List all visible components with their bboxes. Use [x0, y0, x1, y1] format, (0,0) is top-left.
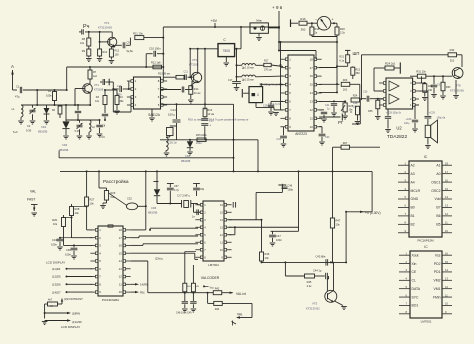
svg-text:ШП: ШП [353, 51, 360, 56]
svg-text:R27: R27 [343, 142, 348, 145]
svg-text:R35: R35 [368, 110, 373, 113]
svg-text:R13 39 ом: R13 39 ом [158, 73, 170, 76]
svg-text:VT5: VT5 [312, 302, 318, 306]
svg-text:C34: C34 [52, 238, 57, 242]
svg-text:(11)D4: (11)D4 [52, 267, 61, 271]
svg-text:CD1: CD1 [41, 125, 47, 129]
svg-text:13: 13 [119, 267, 123, 271]
svg-text:C23: C23 [277, 138, 282, 141]
svg-text:R16 зс имменой 10 4.7к для ука: R16 зс имменой 10 4.7к для указанной зап… [188, 118, 249, 122]
svg-text:R46: R46 [265, 252, 270, 256]
svg-text:B7: B7 [436, 206, 440, 210]
svg-text:5+3: 5+3 [13, 130, 18, 134]
svg-text:VT1: VT1 [94, 83, 99, 87]
svg-text:C11: C11 [184, 71, 189, 74]
svg-text:OSC1: OSC1 [431, 180, 440, 184]
svg-text:17: 17 [310, 66, 314, 70]
svg-text:R31 10к: R31 10к [416, 70, 426, 74]
svg-text:13: 13 [310, 100, 314, 104]
svg-text:C16: C16 [117, 85, 122, 88]
svg-text:15: 15 [310, 83, 314, 87]
svg-text:R10: R10 [103, 51, 108, 54]
svg-text:FMin: FMin [433, 295, 441, 299]
svg-text:VAL: VAL [237, 313, 243, 317]
svg-text:R32: R32 [450, 48, 455, 52]
svg-text:КВ109Б: КВ109Б [59, 148, 69, 152]
svg-text:LCD DISPLAY: LCD DISPLAY [46, 261, 65, 265]
svg-text:100д: 100д [99, 136, 105, 139]
svg-text:MCLR: MCLR [411, 189, 421, 193]
svg-text:A2: A2 [411, 163, 415, 167]
svg-text:КТ3130 Б6: КТ3130 Б6 [450, 89, 464, 93]
svg-text:+ 9 в: + 9 в [272, 5, 283, 10]
svg-text:РГ: РГ [338, 120, 344, 125]
svg-text:R16: R16 [208, 109, 213, 112]
svg-text:+5V: +5V [211, 19, 218, 23]
svg-text:360: 360 [301, 28, 306, 32]
svg-text:Др1 16 мкг: Др1 16 мкг [242, 67, 254, 70]
svg-text:18: 18 [310, 57, 314, 61]
svg-text:R34: R34 [428, 85, 433, 88]
svg-text:15: 15 [119, 251, 123, 255]
svg-text:R5(: R5( [140, 291, 145, 295]
svg-text:Xin: Xin [412, 262, 417, 266]
svg-text:C17: C17 [228, 79, 233, 82]
svg-text:510: 510 [450, 59, 455, 63]
svg-text:B5: B5 [436, 223, 440, 227]
svg-text:R24 2к2: R24 2к2 [385, 62, 396, 66]
svg-text:16: 16 [119, 244, 123, 248]
svg-text:SYC: SYC [412, 295, 420, 299]
svg-text:LM7001: LM7001 [421, 320, 432, 324]
svg-text:R29: R29 [52, 218, 57, 222]
svg-text:12: 12 [119, 275, 123, 279]
svg-text:B1: B1 [411, 214, 415, 218]
svg-text:C44 1μ: C44 1μ [313, 269, 322, 273]
svg-text:10: 10 [310, 125, 314, 129]
svg-text:C43 68н: C43 68н [316, 255, 326, 259]
svg-text:R12: R12 [115, 50, 120, 53]
svg-text:18: 18 [119, 228, 123, 232]
svg-text:17: 17 [119, 236, 123, 240]
svg-text:100p: 100p [288, 189, 294, 192]
svg-text:C20 4.7μ 6в: C20 4.7μ 6в [268, 103, 282, 106]
svg-text:R18: R18 [315, 27, 320, 31]
svg-text:U2: U2 [396, 126, 402, 131]
svg-text:VALCODER: VALCODER [201, 276, 220, 280]
svg-text:GND: GND [411, 197, 419, 201]
svg-text:BO1: BO1 [412, 304, 419, 308]
svg-text:R16: R16 [300, 17, 306, 21]
svg-text:Vss: Vss [435, 253, 441, 257]
svg-text:1к2: 1к2 [93, 75, 97, 78]
svg-text:(5)RW: (5)RW [72, 311, 80, 315]
svg-text:4к7: 4к7 [48, 298, 53, 302]
svg-text:C48 100n C49: C48 100n C49 [176, 312, 192, 315]
svg-text:Рч: Рч [83, 24, 90, 30]
svg-text:VM2: VM2 [434, 279, 441, 283]
svg-text:PIC16F62M: PIC16F62M [417, 239, 434, 243]
svg-text:4.7μ: 4.7μ [174, 189, 179, 192]
svg-text:100н: 100н [196, 142, 202, 145]
svg-text:C14: C14 [171, 108, 177, 112]
svg-text:R23: R23 [343, 79, 348, 82]
svg-text:R: R [350, 111, 352, 114]
svg-text:VAL: VAL [30, 190, 36, 194]
svg-text:(3)CONTRAST: (3)CONTRAST [64, 297, 83, 301]
svg-text:R12 1к8: R12 1к8 [151, 61, 161, 65]
svg-text:C36: C36 [66, 248, 71, 252]
svg-text:–: – [315, 18, 317, 22]
svg-text:100к: 100к [46, 94, 52, 98]
svg-text:КТ3130-Б9: КТ3130-Б9 [98, 26, 112, 30]
svg-text:TDA2822: TDA2822 [387, 134, 408, 140]
svg-text:240: 240 [428, 89, 433, 92]
svg-text:Vcc: Vcc [210, 285, 215, 289]
svg-text:VT3: VT3 [192, 58, 197, 62]
svg-text:FAST: FAST [27, 198, 35, 202]
svg-text:LM7001: LM7001 [208, 263, 219, 267]
svg-text:+C30: +C30 [406, 118, 412, 121]
svg-text:CL: CL [412, 279, 416, 283]
svg-text:100μ 6в: 100μ 6в [437, 117, 446, 120]
svg-text:R28: R28 [75, 207, 80, 211]
svg-text:Др2 25 мкг: Др2 25 мкг [242, 78, 254, 81]
svg-text:VT2: VT2 [104, 21, 110, 25]
svg-text:+: + [332, 18, 334, 22]
svg-text:360: 360 [356, 72, 361, 75]
svg-text:(1)GND: (1)GND [72, 320, 82, 324]
svg-text:+C29: +C29 [429, 112, 435, 115]
svg-text:10 ом: 10 ом [208, 113, 215, 116]
svg-text:R27: R27 [90, 198, 95, 202]
svg-text:КТ3108: КТ3108 [94, 88, 104, 92]
svg-text:14: 14 [310, 91, 314, 95]
svg-text:150 μ: 150 μ [168, 113, 175, 117]
svg-text:(13)D6: (13)D6 [52, 283, 61, 287]
svg-text:R1: R1 [48, 89, 52, 93]
svg-text:SA612A: SA612A [148, 113, 161, 117]
svg-text:C10 100n: C10 100n [149, 46, 161, 50]
svg-text:100н: 100н [51, 243, 57, 247]
svg-text:(14)D7: (14)D7 [52, 290, 61, 294]
svg-text:10 ом: 10 ом [194, 92, 201, 95]
svg-text:B6: B6 [436, 214, 440, 218]
svg-text:IC: IC [424, 245, 428, 249]
svg-text:R44: R44 [215, 308, 220, 311]
svg-text:100н: 100н [65, 253, 71, 257]
svg-text:A1: A1 [436, 163, 440, 167]
svg-text:R14: R14 [194, 88, 199, 91]
svg-text:(12)D5: (12)D5 [52, 275, 61, 279]
svg-text:IC: IC [424, 155, 428, 159]
svg-text:A3: A3 [411, 172, 415, 176]
svg-text:12: 12 [310, 108, 314, 112]
svg-text:КВ109Б: КВ109Б [38, 130, 48, 134]
svg-text:КВ109Б: КВ109Б [181, 159, 191, 163]
svg-text:B0: B0 [411, 206, 415, 210]
svg-text:C46: C46 [288, 185, 293, 188]
svg-text:C1: C1 [16, 85, 20, 89]
svg-text:5-30: 5-30 [75, 130, 81, 133]
svg-text:11: 11 [119, 282, 122, 286]
svg-text:Мик: Мик [256, 19, 262, 23]
svg-text:R17: R17 [264, 59, 269, 62]
svg-text:11: 11 [310, 116, 313, 120]
svg-text:100: 100 [115, 54, 120, 57]
svg-text:A: A [11, 64, 14, 69]
svg-text:Vdd: Vdd [434, 197, 440, 201]
svg-text:B2: B2 [411, 223, 415, 227]
svg-text:A0: A0 [436, 172, 440, 176]
svg-text:270 ом: 270 ом [264, 69, 272, 72]
svg-text:+V (5-30V): +V (5-30V) [365, 211, 381, 215]
svg-text:PIC16F628A: PIC16F628A [102, 298, 119, 302]
svg-text:C2: C2 [27, 124, 31, 128]
svg-text:100μ: 100μ [404, 122, 410, 125]
svg-text:R21: R21 [339, 56, 344, 59]
svg-text:VM1: VM1 [434, 287, 441, 291]
svg-text:VAL int: VAL int [236, 292, 246, 296]
svg-text:M: M [51, 305, 53, 308]
svg-text:КВ109Б: КВ109Б [148, 211, 158, 215]
svg-text:C33: C33 [325, 136, 330, 139]
svg-text:10: 10 [119, 290, 123, 294]
svg-text:C19: C19 [263, 105, 268, 108]
svg-text:5-30: 5-30 [26, 129, 32, 133]
svg-text:КТ3130 Б2: КТ3130 Б2 [306, 307, 320, 311]
svg-text:14(R5: 14(R5 [140, 283, 148, 287]
svg-text:14: 14 [119, 259, 123, 263]
svg-text:DATA: DATA [412, 287, 421, 291]
svg-text:C26: C26 [363, 91, 368, 94]
svg-text:R42: R42 [215, 288, 220, 291]
svg-text:C32: C32 [127, 197, 132, 201]
svg-text:47д: 47д [15, 95, 20, 99]
svg-text:R15 100к: R15 100к [196, 134, 207, 137]
svg-text:Cl 7.2 МГц: Cl 7.2 МГц [177, 194, 190, 198]
svg-text:2К2: 2К2 [343, 89, 348, 92]
svg-text:R33: R33 [446, 86, 451, 89]
svg-text:PD1: PD1 [434, 270, 441, 274]
svg-text:(2)Vcc: (2)Vcc [155, 257, 164, 261]
svg-text:КТ3108: КТ3108 [189, 63, 199, 67]
svg-text:A4: A4 [411, 180, 415, 184]
svg-text:PD2: PD2 [434, 262, 441, 266]
svg-text:Xout: Xout [412, 253, 419, 257]
svg-text:C1Б 1м: C1Б 1м [168, 142, 177, 145]
svg-text:R47: R47 [336, 219, 341, 223]
svg-text:R11 10к: R11 10к [133, 32, 143, 36]
svg-text:5д 6в: 5д 6в [127, 50, 134, 53]
svg-text:CD2: CD2 [62, 143, 68, 147]
svg-text:100д: 100д [116, 93, 122, 96]
svg-text:Д: Д [257, 93, 259, 97]
svg-text:Расстройка: Расстройка [103, 178, 129, 185]
svg-text:16: 16 [310, 74, 314, 78]
svg-text:7805: 7805 [223, 49, 231, 53]
svg-text:C47: C47 [276, 234, 281, 238]
svg-text:CD6: CD6 [151, 206, 157, 210]
svg-text:OSC2: OSC2 [431, 189, 440, 193]
svg-text:100n: 100n [276, 238, 282, 242]
svg-text:C37: C37 [174, 185, 179, 188]
svg-text:AN7223: AN7223 [295, 132, 307, 136]
svg-text:LCD DISPLAY: LCD DISPLAY [61, 325, 80, 329]
svg-text:33р: 33р [200, 188, 205, 191]
svg-text:R45: R45 [307, 280, 312, 284]
svg-text:R20: R20 [340, 27, 345, 31]
svg-text:R24: R24 [353, 95, 358, 98]
svg-text:CE: CE [412, 270, 417, 274]
